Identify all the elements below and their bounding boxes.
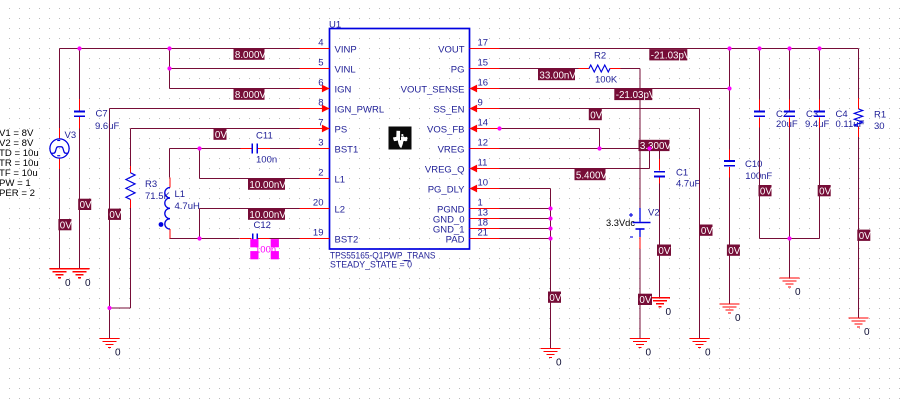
net label 0V on C1 ground wire xyxy=(657,245,671,256)
svg-text:0V: 0V xyxy=(760,186,772,197)
node VOUT at C2 xyxy=(757,46,761,50)
svg-text:7: 7 xyxy=(318,118,323,129)
wire R2 to V2 battery xyxy=(621,69,641,209)
resistor R3 xyxy=(126,166,135,208)
net label 0V on C4 wire xyxy=(818,185,831,196)
svg-text:0V: 0V xyxy=(109,210,121,221)
net label 8.000V on VINP xyxy=(234,49,265,60)
svg-text:PAD: PAD xyxy=(446,235,465,246)
svg-text:4: 4 xyxy=(318,38,323,49)
svg-text:IGN_PWRL: IGN_PWRL xyxy=(335,105,385,116)
wire VOUT rail xyxy=(500,49,859,99)
net label 0V on SS_EN xyxy=(589,109,602,120)
net label 3.300V on VREG xyxy=(639,140,670,151)
svg-text:R1: R1 xyxy=(874,110,886,121)
U1 right pin numbers xyxy=(478,38,489,239)
capacitor C4 xyxy=(814,100,825,128)
svg-text:10: 10 xyxy=(478,178,489,189)
svg-text:9.4uF: 9.4uF xyxy=(805,119,829,130)
wire PG net to R2 xyxy=(500,68,579,70)
svg-text:PER = 2: PER = 2 xyxy=(0,188,35,199)
svg-text:9: 9 xyxy=(478,98,483,109)
svg-text:10.00nV: 10.00nV xyxy=(249,210,286,221)
capacitor C1 xyxy=(654,159,665,184)
svg-text:5: 5 xyxy=(318,58,323,69)
svg-text:VREG: VREG xyxy=(438,145,465,156)
net label 0V on C7 ground wire xyxy=(78,199,91,210)
net label 0V on R1 wire xyxy=(857,230,870,241)
svg-text:0V: 0V xyxy=(80,200,92,211)
wire VOUT_SENSE to VOUT junction xyxy=(500,49,730,150)
voltage source V2 3.3Vdc battery xyxy=(629,208,651,249)
C12 selection handles and value xyxy=(250,239,279,259)
svg-text:STEADY_STATE = 0: STEADY_STATE = 0 xyxy=(330,259,412,269)
svg-text:0V: 0V xyxy=(590,110,602,121)
svg-text:4.7uH: 4.7uH xyxy=(175,201,200,212)
net label 0V on V3 ground wire xyxy=(58,219,71,230)
voltage source V3 VPULSE xyxy=(50,128,69,169)
wire IGN_PWRL net to ground xyxy=(110,109,300,339)
svg-text:17: 17 xyxy=(478,38,489,49)
svg-text:3.3Vdc: 3.3Vdc xyxy=(606,218,635,228)
ground 0 under C7 xyxy=(70,269,92,289)
svg-text:8.000V: 8.000V xyxy=(235,50,267,61)
svg-text:0V: 0V xyxy=(549,293,561,304)
svg-text:4.7uF: 4.7uF xyxy=(676,179,700,190)
wire C10 bottom to ground xyxy=(729,178,731,305)
svg-text:VINL: VINL xyxy=(335,65,356,76)
net label 5.400V on VREG_Q xyxy=(575,169,606,180)
U1 right pin names xyxy=(401,45,466,246)
capacitor C3 xyxy=(784,100,795,128)
node VREG at VOS_FB xyxy=(597,146,601,150)
svg-text:0V: 0V xyxy=(658,246,670,257)
svg-text:20uF: 20uF xyxy=(776,119,798,130)
V3 parameter list text xyxy=(0,128,39,199)
svg-text:C1: C1 xyxy=(676,168,688,179)
svg-text:PS: PS xyxy=(335,125,348,136)
U1 input arrows on pins VOUT_SENSE SS_EN VOS_FB VREG_Q PG_DLY xyxy=(470,85,478,193)
node VOUT at sense tap xyxy=(727,46,731,50)
ground 0 under PGND net xyxy=(541,349,563,369)
ground 0 under output caps xyxy=(780,278,802,298)
ground 0 under C1 xyxy=(650,298,672,318)
resistor R2 xyxy=(579,65,621,72)
resistor R1 xyxy=(854,98,862,137)
svg-text:100n: 100n xyxy=(255,245,276,256)
wire C1 bottom to ground xyxy=(659,184,661,298)
svg-text:10.00nV: 10.00nV xyxy=(249,180,286,191)
net label 0V on PS xyxy=(214,129,227,140)
U1 left pin numbers xyxy=(313,38,324,239)
svg-text:0V: 0V xyxy=(728,246,740,257)
svg-text:L2: L2 xyxy=(335,205,346,216)
svg-text:2: 2 xyxy=(318,168,323,179)
node VOUT_SENSE junction xyxy=(727,86,731,90)
svg-text:6: 6 xyxy=(318,78,323,89)
svg-text:12: 12 xyxy=(478,138,489,149)
wire PG_DLY to PGND/GND_0/GND_1/PAD and ground xyxy=(500,189,551,349)
svg-text:9.6uF: 9.6uF xyxy=(95,121,119,132)
svg-text:V2: V2 xyxy=(648,208,660,219)
wire R1 bottom to ground xyxy=(858,137,860,318)
svg-text:11: 11 xyxy=(478,158,488,169)
net label 0V on C10 ground wire xyxy=(727,245,740,256)
svg-text:C11: C11 xyxy=(256,131,273,142)
wire VREG net to C1 xyxy=(500,149,660,160)
svg-text:0: 0 xyxy=(115,348,121,359)
svg-text:0.11uF: 0.11uF xyxy=(836,119,865,130)
svg-text:L1: L1 xyxy=(335,175,346,186)
wire R3 bottom to ground junction xyxy=(110,208,131,308)
node VREG at VREG_Q xyxy=(647,146,651,150)
node VIN at VINL drop xyxy=(167,46,171,50)
svg-text:0V: 0V xyxy=(819,186,831,197)
node PAD pin21 xyxy=(548,236,552,240)
svg-text:C7: C7 xyxy=(96,109,108,120)
svg-text:R3: R3 xyxy=(145,179,157,190)
node VOS_FB pin junction xyxy=(497,126,501,130)
net label -21.03pV on VOUT xyxy=(649,49,687,60)
op-amp U1 TPS55165-Q1 IC body xyxy=(330,29,470,250)
ground 0 under C10 xyxy=(720,304,742,324)
svg-text:VOUT_SENSE: VOUT_SENSE xyxy=(401,85,465,96)
svg-text:3: 3 xyxy=(318,138,323,149)
wire V3 to ground xyxy=(59,169,61,269)
ground 0 under R1 xyxy=(849,318,871,338)
svg-text:SS_EN: SS_EN xyxy=(433,105,464,116)
svg-text:33.00nV: 33.00nV xyxy=(539,70,576,81)
node output cap rail at C3 xyxy=(787,236,791,240)
capacitor C11 bootstrap xyxy=(241,144,270,154)
net label -21.03pV on VOUT_SENSE xyxy=(614,89,652,100)
svg-text:L1: L1 xyxy=(175,189,186,200)
svg-text:8.000V: 8.000V xyxy=(235,90,267,101)
svg-text:0: 0 xyxy=(65,278,71,289)
U1 TI logo xyxy=(389,127,412,150)
svg-text:IGN: IGN xyxy=(335,85,352,96)
node L2 junction xyxy=(197,236,201,240)
svg-text:3.300V: 3.300V xyxy=(640,141,672,152)
svg-text:14: 14 xyxy=(478,118,489,129)
net label 0V on IGN_PWRL wire xyxy=(108,209,121,220)
node IGN_PWRL ground junction xyxy=(107,306,111,310)
ground 0 under SS_EN net xyxy=(690,339,712,359)
net label 0V on V2 ground wire xyxy=(638,294,652,305)
svg-text:PG: PG xyxy=(451,65,465,76)
inductor L1 xyxy=(159,178,170,239)
wire output cap common rail xyxy=(760,238,820,240)
U1 input arrows on pins IGN IGN_PWRL PS xyxy=(322,85,330,133)
svg-text:16: 16 xyxy=(478,78,489,89)
wire VIN net from V3 to VINP/VINL/IGN xyxy=(60,49,300,129)
wire BST1 to C11 xyxy=(200,148,300,150)
svg-text:VOUT: VOUT xyxy=(438,45,465,56)
svg-text:PG_DLY: PG_DLY xyxy=(428,185,465,196)
svg-text:0: 0 xyxy=(666,307,672,318)
svg-text:100K: 100K xyxy=(595,74,618,85)
capacitor C12 bootstrap selected xyxy=(240,234,270,244)
capacitor C10 xyxy=(724,150,735,178)
wire VOS_FB net down to VREG xyxy=(500,129,600,149)
svg-text:19: 19 xyxy=(313,228,324,239)
wire C7 branch xyxy=(79,49,81,100)
svg-text:0: 0 xyxy=(556,358,562,369)
svg-text:-21.03pV: -21.03pV xyxy=(651,51,691,62)
svg-text:15: 15 xyxy=(478,58,489,69)
svg-text:100nF: 100nF xyxy=(745,171,772,182)
U1 left pin names xyxy=(335,45,385,246)
svg-text:V3: V3 xyxy=(65,130,77,141)
node VOUT at C3 xyxy=(787,46,791,50)
net label 0V on SS_EN ground wire xyxy=(700,225,713,236)
svg-text:20: 20 xyxy=(313,198,324,209)
node VINL tap xyxy=(167,66,171,70)
node PGND pin1 xyxy=(548,206,552,210)
svg-text:0V: 0V xyxy=(859,231,871,242)
svg-text:0V: 0V xyxy=(639,295,651,306)
svg-text:0: 0 xyxy=(735,313,741,324)
svg-text:-21.03pV: -21.03pV xyxy=(616,90,656,101)
wire L2 node: inductor bottom, L2 pin, C12 xyxy=(170,209,300,239)
svg-text:0V: 0V xyxy=(215,130,227,141)
net label 0V on C2 wire xyxy=(759,185,772,196)
wire L1 node: BST1 cap node to inductor and L1 pin xyxy=(170,149,300,179)
svg-text:R2: R2 xyxy=(594,51,606,62)
svg-text:0: 0 xyxy=(705,348,711,359)
wire C7 to ground xyxy=(79,118,81,269)
svg-text:5.400V: 5.400V xyxy=(576,170,608,181)
svg-text:21: 21 xyxy=(478,228,489,239)
svg-text:100n: 100n xyxy=(256,155,277,166)
ground 0 under V2 xyxy=(630,339,652,359)
ground 0 under IGN_PWRL net xyxy=(100,339,122,359)
svg-text:0: 0 xyxy=(85,278,91,289)
svg-text:VINP: VINP xyxy=(335,45,357,56)
node L1/BST1 cap junction xyxy=(197,146,201,150)
net label 33.00nV on PG xyxy=(538,69,575,80)
svg-text:0: 0 xyxy=(646,348,652,359)
svg-text:VOS_FB: VOS_FB xyxy=(427,125,465,136)
net label 10.00nV on L2 xyxy=(248,209,285,220)
svg-text:0V: 0V xyxy=(701,226,713,237)
wire SS_EN net to ground xyxy=(500,109,700,339)
wire PS net to R3 xyxy=(131,129,300,167)
svg-text:BST2: BST2 xyxy=(335,235,359,246)
wire C3 branch from VOUT to ground xyxy=(789,49,791,279)
U1 left pin stubs xyxy=(300,49,330,239)
svg-text:VREG_Q: VREG_Q xyxy=(425,165,465,176)
node VIN at C7 tap xyxy=(77,46,81,50)
svg-text:BST1: BST1 xyxy=(335,145,359,156)
U1 right pin stubs xyxy=(470,49,500,239)
svg-text:0V: 0V xyxy=(60,220,72,231)
net label 8.000V on IGN xyxy=(234,89,265,100)
capacitor C7 xyxy=(74,99,85,129)
wire VREG_Q net xyxy=(500,149,650,169)
wire C2 branch from VOUT xyxy=(759,49,761,239)
svg-text:U1: U1 xyxy=(329,20,341,31)
wire C4 branch from VOUT xyxy=(819,49,821,239)
capacitor C2 xyxy=(754,100,765,128)
node GND_0 pin13 xyxy=(548,216,552,220)
wire V2 bottom to ground xyxy=(639,249,641,339)
ground 0 under V3 xyxy=(50,269,72,289)
node VOUT at C4 xyxy=(817,46,821,50)
net label 0V on PGND xyxy=(548,292,561,303)
svg-text:30: 30 xyxy=(874,121,885,132)
svg-text:8: 8 xyxy=(318,98,323,109)
svg-text:0: 0 xyxy=(795,287,801,298)
svg-text:C12: C12 xyxy=(254,220,271,231)
svg-text:0: 0 xyxy=(864,327,870,338)
node GND_1 pin18 xyxy=(548,226,552,230)
net label 10.00nV on L1 xyxy=(248,179,285,190)
